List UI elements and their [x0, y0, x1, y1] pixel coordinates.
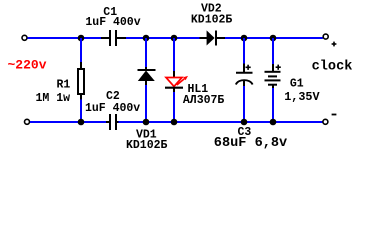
svg-text:68uF 6,8v: 68uF 6,8v — [214, 136, 287, 151]
wire C2 left lead (black) — [106, 121, 109, 123]
wire VD1 bottom (blue) — [145, 85, 147, 122]
capacitor C3 (polarized) — [236, 65, 253, 85]
wire bottom rail left (blue) — [30, 121, 106, 123]
wire C1 left lead (black) — [101, 37, 109, 39]
node junction top of VD1 — [143, 35, 150, 42]
node junction bottom of G1 — [270, 119, 277, 126]
node junction top of C3 — [241, 35, 248, 42]
wire top rail VD2 to terminal (blue) — [225, 37, 323, 39]
wire C3 bottom (blue) — [243, 86, 245, 122]
wire C3 top lead (black) — [243, 64, 245, 73]
wire VD2 left lead (black) — [200, 37, 208, 39]
wire G1 top lead (black) — [272, 64, 274, 72]
node junction top of R1 — [78, 35, 85, 42]
wire top rail C1 to VD2 (blue) — [126, 37, 200, 39]
svg-text:R1: R1 — [57, 79, 71, 92]
wire R1 top (blue) — [80, 38, 82, 62]
wire top rail left (blue) — [28, 37, 102, 39]
wire C3 top (blue) — [243, 38, 245, 64]
diode VD1 — [138, 70, 156, 81]
svg-text:KD102Б: KD102Б — [191, 14, 233, 27]
node junction bottom of R1 — [78, 119, 85, 126]
wire R1 bottom lead (black) — [80, 94, 82, 100]
capacitor C2 — [110, 114, 116, 130]
LED HL1 — [165, 76, 188, 88]
wire VD1 top (blue) — [145, 38, 147, 67]
svg-text:АЛ307Б: АЛ307Б — [183, 94, 225, 107]
label plus sign — [332, 42, 337, 47]
svg-text:clock: clock — [312, 59, 353, 74]
wire VD2 right lead (black) — [217, 37, 225, 39]
label minus sign — [332, 114, 337, 116]
node junction top of HL1 — [171, 35, 178, 42]
terminal bottom-right — [323, 119, 328, 124]
node junction bottom of C3 — [241, 119, 248, 126]
terminal top-right — [323, 34, 328, 39]
battery G1 — [265, 65, 281, 85]
wire HL1 top (blue) — [173, 38, 175, 71]
wire G1 top (blue) — [272, 38, 274, 64]
node junction top of G1 — [270, 35, 277, 42]
wire VD1 bottom lead (black) — [145, 81, 147, 85]
svg-text:1,35V: 1,35V — [284, 90, 320, 104]
wire G1 bottom lead (black) — [272, 85, 274, 88]
svg-text:1M 1w: 1M 1w — [36, 92, 71, 105]
svg-text:~220v: ~220v — [8, 57, 47, 72]
svg-text:1uF 400v: 1uF 400v — [85, 16, 140, 29]
wire G1 bottom (blue) — [272, 88, 274, 122]
terminal top-left — [22, 35, 27, 40]
wire R1 bottom (blue) — [80, 100, 82, 123]
terminal bottom-left — [25, 119, 30, 124]
wire R1 top lead (black) — [80, 62, 82, 69]
resistor R1 — [78, 69, 84, 94]
svg-text:1uF 400v: 1uF 400v — [85, 102, 140, 115]
capacitor C1 — [110, 30, 116, 46]
wire C3 bottom lead (black) — [243, 81, 245, 87]
wire bottom rail C2 to terminal (blue) — [119, 121, 323, 123]
wire HL1 bottom (blue) — [173, 92, 175, 122]
wire HL1 top lead (black) — [173, 71, 175, 77]
wire VD1 top lead (black) — [145, 67, 147, 70]
diode VD2 — [207, 30, 216, 45]
wire C2 right lead (black) — [117, 121, 119, 123]
node junction bottom of HL1 — [171, 119, 178, 126]
svg-text:G1: G1 — [290, 77, 304, 90]
node junction bottom of VD1 — [143, 119, 150, 126]
svg-text:KD102Б: KD102Б — [126, 139, 168, 152]
wire C1 right lead (black) — [117, 37, 126, 39]
wire HL1 bottom lead (black) — [173, 89, 175, 93]
